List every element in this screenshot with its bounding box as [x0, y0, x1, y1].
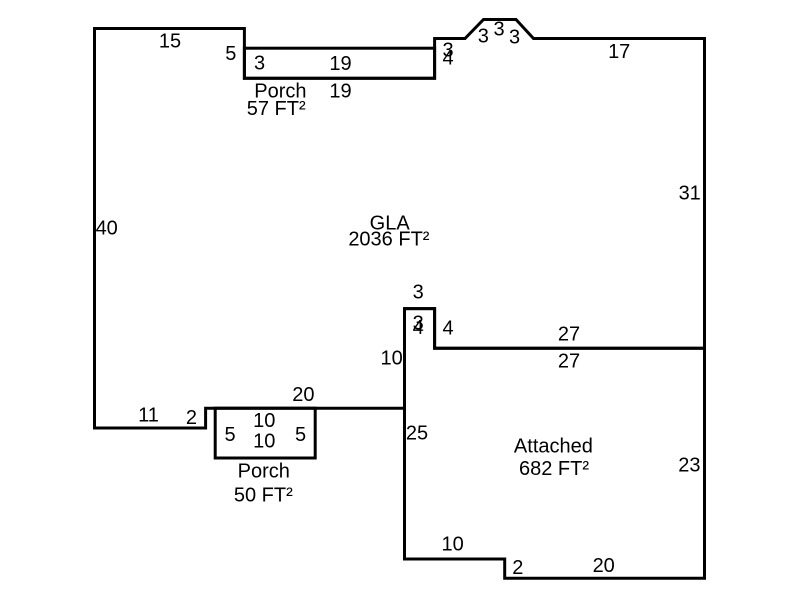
svg-text:2036 FT²: 2036 FT²: [348, 228, 429, 250]
svg-text:3: 3: [254, 52, 265, 74]
svg-text:3: 3: [478, 26, 489, 48]
svg-text:4: 4: [413, 317, 424, 339]
svg-text:27: 27: [558, 351, 580, 373]
svg-text:40: 40: [96, 218, 118, 240]
svg-text:10: 10: [441, 534, 463, 556]
svg-text:4: 4: [442, 47, 453, 69]
svg-text:3: 3: [509, 26, 520, 48]
svg-text:5: 5: [225, 43, 236, 65]
svg-text:15: 15: [159, 30, 181, 52]
svg-text:31: 31: [679, 182, 701, 204]
svg-text:10: 10: [253, 410, 275, 432]
svg-text:5: 5: [295, 424, 306, 446]
svg-text:19: 19: [329, 81, 351, 103]
svg-text:20: 20: [593, 555, 615, 577]
svg-text:27: 27: [558, 324, 580, 346]
svg-text:682 FT²: 682 FT²: [519, 458, 589, 480]
svg-text:Attached: Attached: [514, 435, 593, 457]
svg-text:10: 10: [253, 430, 275, 452]
svg-text:57 FT²: 57 FT²: [247, 98, 306, 120]
svg-text:Porch: Porch: [238, 461, 290, 483]
svg-text:10: 10: [380, 347, 402, 369]
svg-text:11: 11: [138, 404, 159, 426]
svg-text:17: 17: [608, 41, 630, 63]
svg-text:5: 5: [224, 424, 235, 446]
svg-text:2: 2: [186, 407, 197, 429]
svg-text:19: 19: [329, 53, 351, 75]
svg-text:3: 3: [413, 282, 424, 304]
svg-text:4: 4: [442, 318, 453, 340]
svg-text:50 FT²: 50 FT²: [234, 484, 293, 506]
svg-text:2: 2: [512, 557, 523, 579]
svg-text:25: 25: [406, 423, 428, 445]
svg-text:20: 20: [292, 384, 314, 406]
svg-text:3: 3: [493, 19, 504, 41]
svg-text:23: 23: [678, 455, 700, 477]
